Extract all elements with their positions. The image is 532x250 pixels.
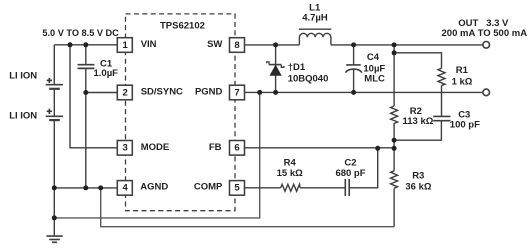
pin 4 box [117, 181, 132, 196]
diode D1 schottky [267, 62, 284, 75]
battery BT1 plus sign [47, 78, 52, 83]
wire FB rail [244, 147, 394, 149]
node dot OUT/R2 [392, 42, 397, 47]
svg-text:4.7µH: 4.7µH [302, 12, 328, 23]
wire PGND rail [244, 91, 483, 93]
svg-text:6: 6 [234, 143, 239, 154]
node dot AGND/C1 [83, 185, 88, 190]
wire MODE branch [70, 45, 117, 148]
pin 3 box [117, 141, 132, 156]
svg-text:8: 8 [234, 40, 239, 51]
wire R2 bottom to FB [393, 125, 395, 148]
svg-text:4: 4 [123, 182, 129, 193]
wire R3 top lead [393, 148, 395, 171]
wire SW rail [244, 44, 299, 46]
wire R1 bottom to C3 [441, 85, 443, 116]
pin 6 box [230, 141, 245, 156]
node dot OUT/C4 [351, 42, 356, 47]
svg-text:R1: R1 [456, 65, 469, 76]
svg-text:AGND: AGND [140, 182, 168, 193]
wire C1 top lead [85, 45, 87, 65]
resistor R4 [281, 184, 301, 191]
svg-text:113 kΩ: 113 kΩ [403, 116, 434, 127]
svg-text:5: 5 [234, 182, 240, 193]
pin 1 box [117, 38, 132, 53]
svg-text:1: 1 [123, 40, 129, 51]
svg-text:PGND: PGND [195, 87, 223, 98]
pin 8 box [230, 38, 245, 53]
wire R3 bottom [393, 188, 395, 226]
svg-text:15 kΩ: 15 kΩ [277, 168, 303, 179]
node dot FB/R2 [392, 146, 397, 151]
node dot VIN/MODE [68, 42, 73, 47]
svg-text:R4: R4 [284, 157, 297, 168]
wire R2 top lead [393, 45, 395, 106]
pin 7 box [230, 85, 245, 100]
node dot PGND/return [257, 90, 262, 95]
node dot FB/C2 [375, 146, 380, 151]
svg-text:3: 3 [123, 143, 128, 154]
wire C4 bottom lead [353, 69, 355, 93]
wire input top rail [54, 44, 117, 46]
wire C1 bottom to AGND rail [85, 68, 87, 187]
svg-text:†D1: †D1 [288, 62, 306, 73]
svg-text:680 pF: 680 pF [335, 168, 365, 179]
svg-text:SW: SW [207, 39, 222, 50]
svg-text:36 kΩ: 36 kΩ [405, 181, 431, 192]
IC U1 dashed boundary [126, 14, 236, 211]
svg-text:2: 2 [123, 87, 128, 98]
wire L1 to output terminal [331, 44, 483, 46]
node dot C3 branch [392, 138, 397, 143]
svg-text:COMP: COMP [194, 182, 223, 193]
output terminal upper [483, 42, 490, 49]
node dot C1/SD [83, 90, 88, 95]
wire C2 to FB riser [349, 148, 378, 188]
wire between batteries [53, 89, 55, 117]
wire AGND rail [54, 187, 117, 189]
svg-text:FB: FB [209, 142, 222, 153]
svg-text:VIN: VIN [141, 39, 157, 50]
svg-text:MLC: MLC [364, 74, 385, 85]
wire C3 bottom branch [394, 121, 441, 141]
node dot SW/D1 [273, 42, 278, 47]
wire R1 feed branch [394, 53, 441, 69]
capacitor C1 [78, 65, 95, 69]
svg-text:R3: R3 [412, 170, 424, 181]
svg-text:SD/SYNC: SD/SYNC [141, 87, 183, 98]
wire AGND to bottom return [101, 188, 394, 227]
ground [46, 236, 62, 242]
capacitor C4 [346, 65, 362, 73]
resistor R3 [391, 171, 398, 189]
wire R4 to C2 [300, 187, 345, 189]
svg-text:MODE: MODE [141, 142, 170, 153]
svg-text:5.0 V TO 8.5 V DC: 5.0 V TO 8.5 V DC [42, 28, 119, 38]
node dot AGND/battery [52, 185, 57, 190]
wire ground return to PGND [54, 92, 259, 217]
wire diode branch [275, 45, 277, 93]
battery BT2 plus sign [47, 109, 52, 114]
node dot VIN/C1 [83, 42, 88, 47]
svg-text:200 mA TO 500 mA: 200 mA TO 500 mA [442, 28, 528, 39]
wire battery column top lead [53, 45, 55, 85]
node dot ground return [52, 215, 57, 220]
battery BT1 LI ION [46, 85, 63, 89]
svg-text:TPS62102: TPS62102 [160, 20, 205, 31]
svg-text:LI ION: LI ION [9, 110, 37, 121]
pin 5 box [230, 181, 245, 196]
svg-text:1 kΩ: 1 kΩ [452, 76, 473, 87]
wire battery to ground [53, 120, 55, 236]
output terminal lower [483, 89, 490, 96]
capacitor C2 [345, 179, 349, 196]
node dot PGND/D1 [273, 90, 278, 95]
resistor R2 [391, 106, 398, 125]
capacitor C3 [433, 116, 450, 120]
svg-text:100 pF: 100 pF [450, 120, 480, 131]
svg-text:C2: C2 [344, 157, 356, 168]
wire SD/SYNC pin2 [86, 92, 118, 94]
svg-text:10BQ040: 10BQ040 [288, 74, 329, 85]
node dot AGND/return [98, 185, 103, 190]
resistor R1 [438, 68, 445, 85]
svg-text:7: 7 [234, 87, 239, 98]
wire COMP to R4 [244, 187, 280, 189]
node dot R1 branch [392, 50, 397, 55]
wire C4 top lead [353, 45, 355, 65]
inductor L1 [299, 29, 331, 45]
battery BT2 LI ION [46, 116, 63, 120]
pin 2 box [117, 85, 132, 100]
svg-text:C4: C4 [367, 52, 380, 63]
node dot PGND/C4 [351, 90, 356, 95]
svg-text:LI ION: LI ION [9, 70, 37, 81]
svg-text:1.0µF: 1.0µF [94, 68, 119, 79]
